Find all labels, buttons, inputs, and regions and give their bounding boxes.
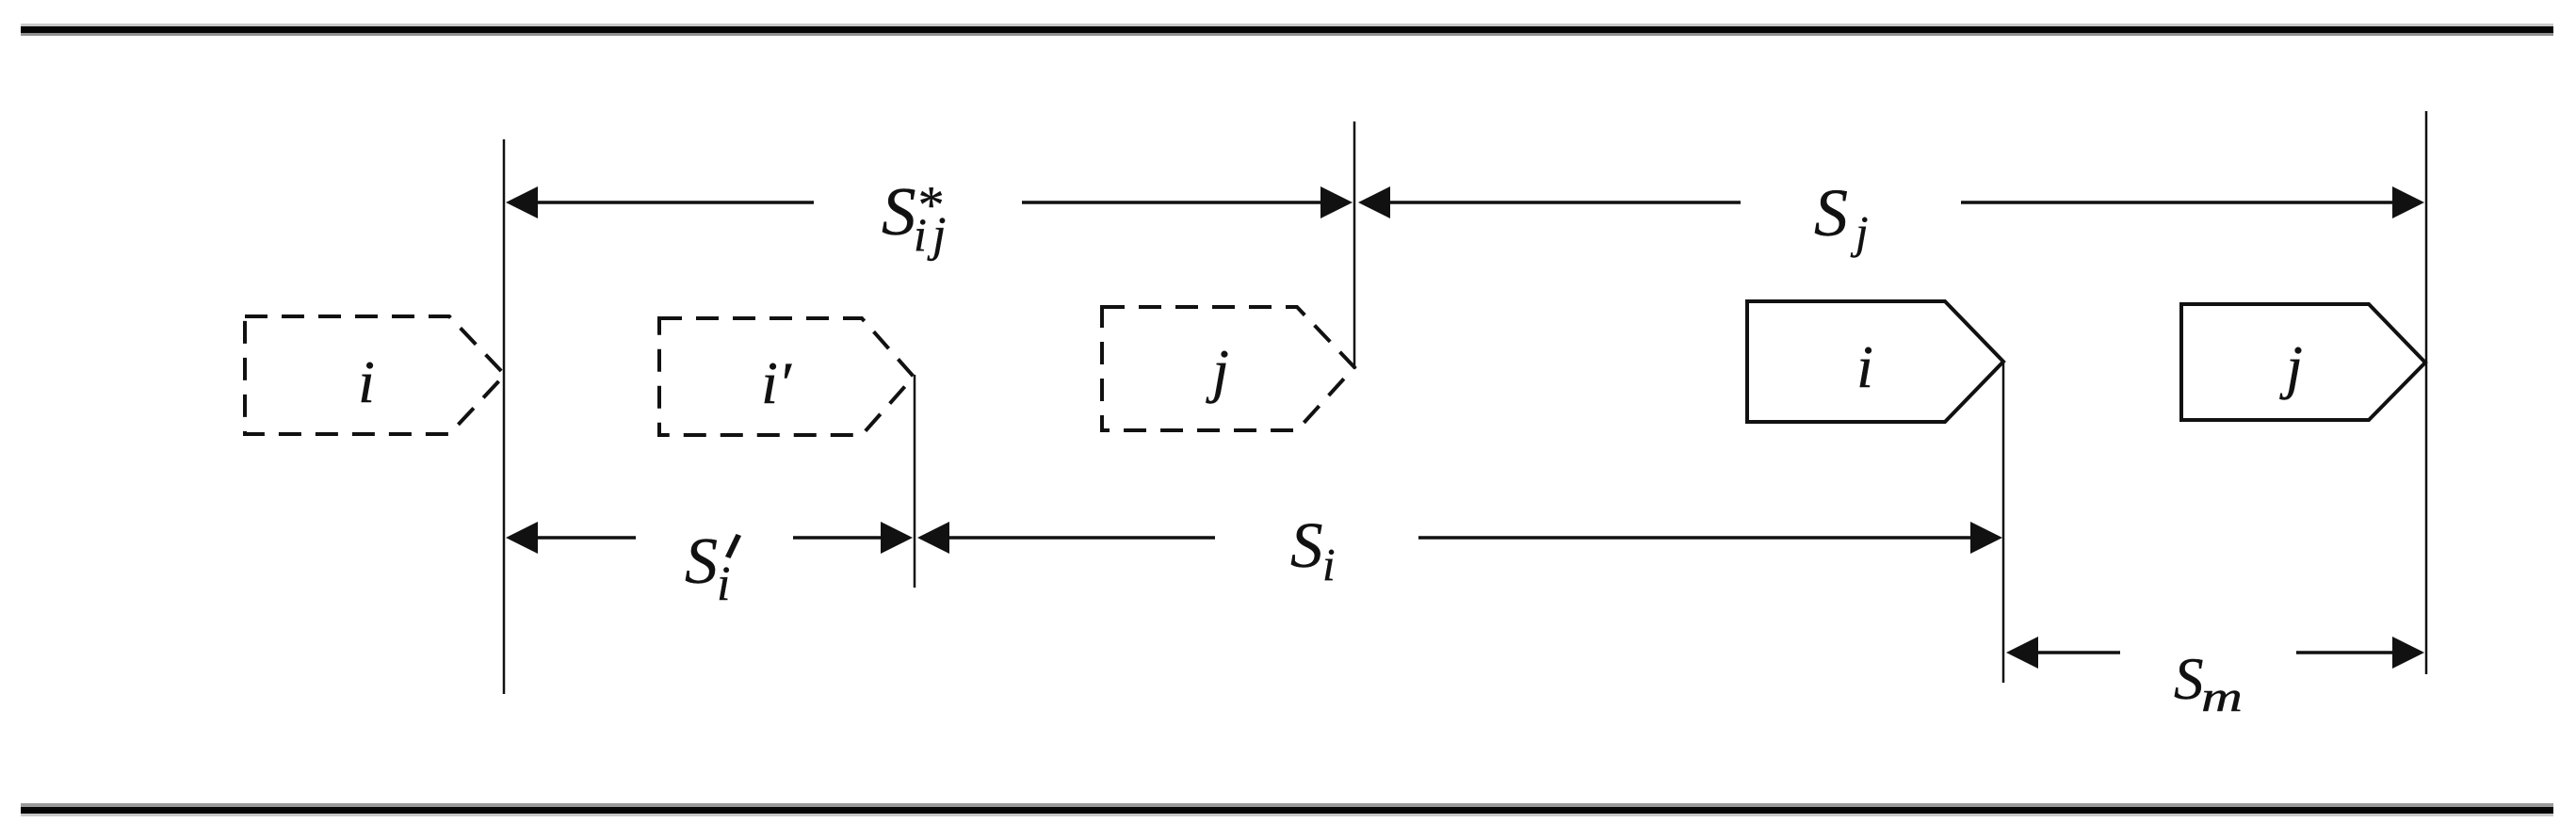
dimension S_m : shaft right [2296, 651, 2394, 654]
dimension S_i : right arrowhead [1970, 522, 2002, 554]
dimension S*_ij : left arrowhead [506, 186, 538, 218]
dimension S'_i : shaft left [535, 536, 636, 540]
svg-text:S: S [685, 525, 718, 598]
dimension S*_ij : shaft left [535, 201, 814, 204]
dashed vehicle i [245, 316, 505, 434]
svg-text:S: S [2174, 646, 2204, 712]
label S_j [1814, 175, 1869, 258]
solid vehicle j [2181, 304, 2425, 420]
dimension S_j : shaft right [1961, 201, 2396, 204]
svg-text:i: i [914, 208, 927, 261]
bottom road boundary [21, 803, 2553, 816]
dimension S_i : shaft left [948, 536, 1215, 540]
dimension S*_ij : shaft right [1022, 201, 1322, 204]
svg-text:S: S [1814, 175, 1848, 250]
dimension S_i : left arrowhead [917, 522, 949, 554]
dimension S_j : left arrowhead [1358, 186, 1390, 218]
dimension S_m : shaft left [2036, 651, 2120, 654]
dashed vehicle j [1102, 307, 1354, 430]
solid vehicle i [1747, 301, 2003, 422]
dashed vehicle i' [659, 318, 914, 435]
dimension S'_i : right arrowhead [881, 522, 913, 554]
vertical reference line V1 (rear of merge gap, at tip of dashed vehicle i) [503, 139, 506, 694]
dimension S_j : shaft left [1388, 201, 1741, 204]
dimension S_j : right arrowhead [2392, 186, 2424, 218]
label S_i [1290, 509, 1336, 590]
svg-text:m: m [2201, 672, 2243, 720]
vertical reference line V4 (tip of solid vehicle i) [2002, 362, 2005, 683]
label S'_i [685, 525, 741, 611]
dimension S'_i : shaft right [793, 536, 883, 540]
svg-text:i: i [1322, 539, 1336, 590]
vertical reference line V2 (tip of dashed vehicle i') [914, 375, 916, 588]
dimension S_m : left arrowhead [2006, 637, 2038, 669]
svg-text:i: i [1856, 333, 1873, 400]
dimension S_i : shaft right [1418, 536, 1974, 540]
vertical reference line V5 (tip of solid vehicle j) [2425, 111, 2428, 674]
svg-text:i′: i′ [761, 349, 792, 416]
top road boundary [21, 24, 2553, 36]
vertical reference line V3 (tip of dashed vehicle j) [1353, 121, 1356, 369]
dimension S_m : right arrowhead [2392, 637, 2424, 669]
svg-text:S: S [1290, 509, 1323, 581]
dimension S'_i : left arrowhead [506, 522, 538, 554]
label S_m [2174, 646, 2243, 720]
svg-text:i: i [358, 348, 375, 415]
svg-text:i: i [717, 557, 730, 611]
label S*_ij [882, 173, 946, 262]
dimension S*_ij : right arrowhead [1320, 186, 1353, 218]
svg-text:S: S [882, 173, 916, 250]
